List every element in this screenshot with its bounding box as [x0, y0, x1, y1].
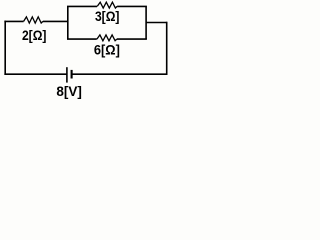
wire bottom right: [72, 73, 168, 75]
wire bottom left: [4, 73, 67, 75]
wire box right edge: [145, 6, 147, 39]
resistor R1 2ohm zigzag: [24, 17, 43, 23]
wire box left edge: [67, 6, 69, 39]
wire top-left branch: [4, 20, 23, 22]
svg-text:2[Ω]: 2[Ω]: [22, 27, 47, 43]
wire R1 to box: [43, 20, 68, 22]
wire box to right vertical: [146, 22, 167, 24]
svg-text:3[Ω]: 3[Ω]: [95, 8, 120, 24]
wire bottom branch left: [67, 38, 97, 40]
resistor R3 6ohm zigzag: [97, 35, 117, 41]
svg-text:8[V]: 8[V]: [56, 83, 82, 99]
resistor R2 3ohm zigzag: [97, 2, 117, 8]
wire left vertical: [4, 21, 6, 75]
battery B1 plate short: [71, 70, 73, 79]
svg-text:6[Ω]: 6[Ω]: [94, 41, 120, 57]
wire top branch left: [67, 5, 97, 7]
battery B1 plate long: [66, 67, 68, 82]
wire right vertical: [166, 22, 168, 75]
wire top branch right: [117, 5, 147, 7]
wire bottom branch right: [117, 38, 147, 40]
